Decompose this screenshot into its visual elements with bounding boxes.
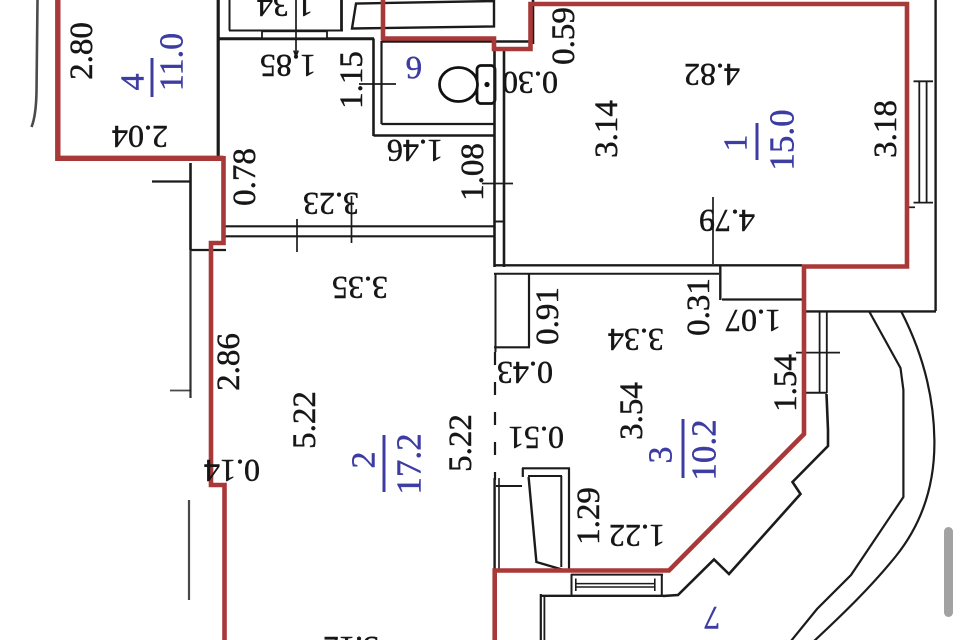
svg-text:3.18: 3.18 bbox=[868, 100, 904, 158]
dim tick 1.85 bbox=[294, 0, 298, 57]
wall wc bottom inner bbox=[382, 123, 495, 125]
svg-text:2: 2 bbox=[346, 452, 383, 469]
wall neighbor vertical bbox=[189, 163, 192, 250]
wall closet bottom outer bbox=[217, 37, 374, 40]
dim tick 3.35 bbox=[351, 196, 353, 243]
svg-text:15.0: 15.0 bbox=[763, 109, 802, 170]
svg-text:1.29: 1.29 bbox=[571, 487, 607, 545]
balcony parapet zigzag bbox=[663, 394, 828, 596]
wall main left line bbox=[493, 40, 496, 267]
svg-text:2.04: 2.04 bbox=[112, 119, 168, 155]
svg-text:11.0: 11.0 bbox=[154, 33, 191, 91]
toilet dot bbox=[484, 82, 489, 87]
dim tick neighbor bbox=[170, 390, 191, 392]
wall shaft right vertical bbox=[532, 0, 535, 44]
room1 window panes bbox=[919, 81, 926, 203]
svg-text:1.46: 1.46 bbox=[387, 133, 443, 169]
jamb line left bbox=[493, 478, 495, 569]
bay window sill bottom bbox=[806, 392, 827, 394]
wall neighbor vertical faded bbox=[189, 250, 191, 398]
wall main right line bbox=[503, 49, 506, 267]
wall closet inner left bbox=[229, 0, 231, 31]
balcony window sill top bbox=[571, 574, 663, 576]
dim tick 3.23 bbox=[296, 219, 298, 252]
wall outer right bbox=[934, 0, 936, 311]
storage slanted box bbox=[352, 1, 494, 29]
dim tick 1.15 bbox=[359, 83, 396, 85]
red boundary left bbox=[58, 0, 224, 158]
svg-text:6: 6 bbox=[406, 49, 423, 85]
dim tick 3.18 bbox=[907, 206, 916, 208]
jamb line right bbox=[498, 478, 500, 569]
wall hall bottom lower line bbox=[224, 235, 494, 237]
red boundary right bbox=[383, 0, 907, 640]
svg-text:0.59: 0.59 bbox=[546, 7, 582, 65]
wall neighbor stub bbox=[152, 180, 191, 182]
wall below hall corner bbox=[191, 249, 226, 251]
duct bottom wall bbox=[494, 346, 530, 348]
wall closet right bbox=[340, 0, 343, 31]
svg-text:3.34: 3.34 bbox=[608, 322, 664, 358]
svg-text:0.43: 0.43 bbox=[497, 355, 553, 391]
room4 label bbox=[115, 33, 191, 97]
wall wc bottom outer bbox=[374, 134, 495, 137]
svg-text:7: 7 bbox=[704, 599, 721, 635]
svg-text:1: 1 bbox=[718, 135, 755, 152]
door sill closet bbox=[262, 31, 327, 38]
svg-text:2.80: 2.80 bbox=[64, 22, 100, 80]
wall hall bottom top line bbox=[224, 225, 494, 227]
wall connector door bbox=[494, 221, 505, 223]
svg-text:1.15: 1.15 bbox=[334, 51, 370, 109]
balcony curve outer bbox=[813, 312, 934, 640]
balcony window end blocks bbox=[576, 579, 655, 592]
svg-text:1.22: 1.22 bbox=[609, 518, 665, 554]
svg-text:3.54: 3.54 bbox=[614, 382, 650, 440]
svg-text:5.12: 5.12 bbox=[323, 630, 379, 640]
balcony window left jamb bbox=[571, 574, 573, 596]
svg-text:17.2: 17.2 bbox=[390, 433, 429, 494]
balcony left wall inner bbox=[543, 597, 545, 640]
svg-text:0.51: 0.51 bbox=[508, 420, 564, 456]
svg-text:5.22: 5.22 bbox=[443, 414, 479, 472]
door frame inner right bbox=[560, 476, 562, 567]
wall step bottom bbox=[722, 298, 802, 300]
svg-text:3.23: 3.23 bbox=[303, 186, 359, 222]
svg-text:4: 4 bbox=[115, 74, 152, 91]
dim tick 1.54 bbox=[796, 352, 840, 354]
svg-text:0.14: 0.14 bbox=[204, 453, 260, 489]
toilet tank bbox=[477, 66, 495, 104]
svg-text:3.14: 3.14 bbox=[589, 100, 625, 158]
svg-text:3.35: 3.35 bbox=[332, 270, 388, 306]
door frame outer top bbox=[522, 467, 570, 469]
scrollbar grey bbox=[944, 527, 953, 617]
balcony window sill bottom bbox=[540, 595, 664, 597]
wall room1 bottom top face bbox=[494, 264, 802, 266]
svg-text:0.31: 0.31 bbox=[681, 278, 717, 336]
wall closet inner bottom bbox=[229, 30, 343, 32]
balcony curve inner bbox=[791, 312, 903, 640]
dim tick 1.08 bbox=[482, 183, 513, 185]
wall step vertical bbox=[719, 265, 721, 300]
svg-text:1.54: 1.54 bbox=[768, 354, 804, 412]
door frame right jamb bbox=[568, 468, 570, 570]
svg-text:0.30: 0.30 bbox=[502, 65, 558, 101]
door stub wall bbox=[496, 485, 522, 487]
svg-text:1.34: 1.34 bbox=[257, 0, 313, 24]
room2 label bbox=[346, 433, 429, 494]
room3 label bbox=[643, 419, 724, 481]
svg-text:4.79: 4.79 bbox=[699, 203, 755, 239]
dim tick 4.79 bbox=[712, 197, 714, 264]
wall wc top inner bbox=[382, 40, 534, 42]
svg-text:10.2: 10.2 bbox=[685, 419, 724, 480]
svg-text:4.82: 4.82 bbox=[684, 57, 740, 93]
bay window jambs bbox=[820, 311, 827, 393]
duct right wall bbox=[528, 274, 530, 347]
wall wc left outer bbox=[372, 39, 375, 137]
svg-text:0.78: 0.78 bbox=[227, 148, 263, 206]
wall room4 right bbox=[217, 0, 220, 157]
door frame inner top bbox=[528, 475, 562, 477]
toilet bowl bbox=[440, 68, 478, 102]
door leaf bbox=[529, 477, 562, 570]
door frame left jamb bbox=[522, 468, 524, 477]
wall ghost outer left bbox=[32, 0, 38, 127]
svg-text:5.22: 5.22 bbox=[287, 391, 323, 449]
svg-text:1.07: 1.07 bbox=[725, 303, 781, 339]
wall wc left inner bbox=[380, 41, 382, 124]
room1 window sills bbox=[914, 81, 934, 202]
wall neighbor lower segment bbox=[188, 500, 190, 600]
wall room1 bottom lower face bbox=[494, 273, 719, 275]
balcony left wall outer bbox=[540, 594, 542, 640]
balcony slab bottom bbox=[806, 310, 936, 312]
room1 label bbox=[718, 109, 802, 170]
duct left wall bbox=[495, 274, 497, 352]
svg-text:1.08: 1.08 bbox=[455, 143, 491, 201]
dashed opening line bbox=[494, 352, 496, 480]
svg-text:1.85: 1.85 bbox=[260, 48, 316, 84]
balcony window mid lines bbox=[575, 584, 655, 587]
svg-text:0.91: 0.91 bbox=[530, 287, 566, 345]
balcony window right jamb bbox=[661, 574, 663, 596]
svg-text:2.86: 2.86 bbox=[211, 333, 247, 391]
svg-text:3: 3 bbox=[643, 447, 680, 464]
